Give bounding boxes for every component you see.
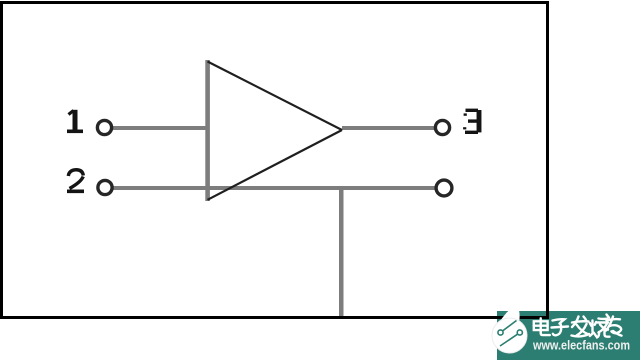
wire pin3 output (horizontal) bbox=[342, 126, 436, 130]
watermark logo plug icon bbox=[498, 321, 523, 347]
op-amp U1 triangle left edge bbox=[205, 60, 210, 201]
pin label 3 bbox=[465, 110, 479, 132]
pin label 1 bbox=[67, 110, 83, 132]
watermark background (elecfans) bbox=[497, 311, 640, 360]
pin label 2 bbox=[67, 170, 84, 192]
terminal circle pin 3 bbox=[435, 120, 449, 134]
watermark text 电子发烧友 drawn as paths (char 电) bbox=[534, 318, 550, 335]
terminal circle pin 1 bbox=[97, 120, 111, 134]
terminal circle pin 2 right end bbox=[436, 180, 452, 196]
wire pin1 input (horizontal) bbox=[110, 126, 208, 130]
watermark text char 发 bbox=[572, 317, 590, 337]
watermark logo circle bbox=[492, 318, 527, 353]
wire pin2 input (horizontal) bbox=[110, 186, 436, 190]
watermark text char 烧 bbox=[590, 315, 610, 338]
watermark text char 子 bbox=[552, 319, 569, 335]
watermark logo leaf bbox=[500, 305, 519, 322]
op-amp U1 triangle top edge bbox=[208, 62, 343, 131]
svg-text:www.elecfans.com: www.elecfans.com bbox=[532, 338, 630, 353]
op-amp U1 triangle bottom edge bbox=[208, 130, 343, 200]
watermark text char 友 bbox=[606, 317, 622, 336]
terminal circle pin 2 bbox=[98, 180, 112, 194]
border frame of schematic bbox=[2, 3, 548, 318]
wire vertical ground stub bbox=[339, 188, 344, 316]
